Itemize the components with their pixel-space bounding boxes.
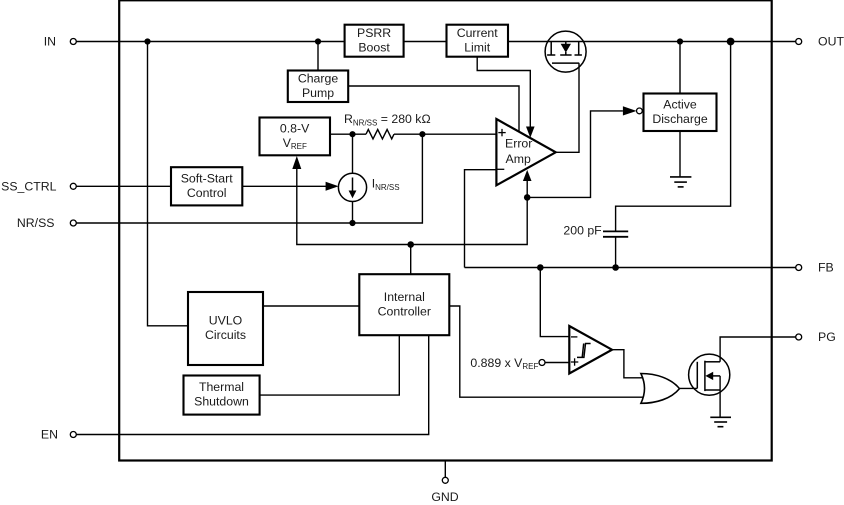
svg-text:Internal: Internal [384, 290, 425, 304]
svg-text:GND: GND [431, 490, 458, 504]
svg-text:Current: Current [457, 26, 499, 40]
svg-text:Control: Control [187, 186, 227, 200]
svg-text:Charge: Charge [298, 71, 338, 85]
svg-text:Shutdown: Shutdown [194, 395, 249, 409]
svg-text:OUT: OUT [818, 35, 844, 49]
svg-text:FB: FB [818, 261, 834, 275]
svg-text:Discharge: Discharge [652, 112, 708, 126]
svg-text:Soft-Start: Soft-Start [181, 171, 234, 185]
svg-text:0.8-V: 0.8-V [280, 122, 310, 136]
svg-text:NR/SS: NR/SS [17, 216, 55, 230]
svg-text:EN: EN [41, 428, 58, 442]
svg-text:Circuits: Circuits [205, 328, 246, 342]
svg-text:PG: PG [818, 330, 836, 344]
svg-text:Error: Error [505, 137, 532, 151]
svg-text:UVLO: UVLO [209, 314, 243, 328]
svg-text:Active: Active [663, 97, 697, 111]
svg-text:Limit: Limit [464, 40, 491, 54]
svg-text:Thermal: Thermal [199, 380, 244, 394]
svg-text:Controller: Controller [378, 304, 431, 318]
svg-text:Pump: Pump [302, 86, 334, 100]
svg-text:PSRR: PSRR [357, 26, 391, 40]
svg-text:IN: IN [44, 35, 56, 49]
svg-text:Amp: Amp [506, 152, 531, 166]
svg-text:Boost: Boost [358, 40, 390, 54]
svg-text:200 pF: 200 pF [563, 223, 602, 237]
svg-text:SS_CTRL: SS_CTRL [1, 180, 57, 194]
